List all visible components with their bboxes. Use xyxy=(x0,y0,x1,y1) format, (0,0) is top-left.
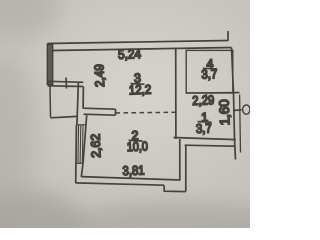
wall top inner line xyxy=(53,48,232,51)
left edge band xyxy=(0,55,37,205)
wall window-side right line below stub junction xyxy=(83,115,87,163)
dark top-left corner xyxy=(0,0,60,40)
niche left vertical xyxy=(49,87,52,118)
partition stub between rooms 2 and 3 xyxy=(84,108,116,109)
wall right-of-room2 verticals xyxy=(179,139,181,181)
svg-text:3,81: 3,81 xyxy=(122,162,145,178)
tick on upper-left wall xyxy=(65,78,68,89)
wall window-side lower double vertical xyxy=(75,125,78,184)
room 4 rectangle xyxy=(186,50,233,93)
dark corner bottom-left xyxy=(0,190,85,240)
bottom strip darkening xyxy=(60,202,290,240)
wall right outer xyxy=(232,48,236,160)
wall window-side upper double vertical xyxy=(77,82,79,125)
dashed zone split between rooms 2 and 3 xyxy=(116,111,176,114)
window symbol xyxy=(77,124,86,126)
wall bottom outer line xyxy=(76,183,164,185)
svg-text:3,7: 3,7 xyxy=(196,120,213,136)
svg-text:1,60: 1,60 xyxy=(217,99,233,126)
wall top outer line xyxy=(48,41,229,44)
tick below room 4 xyxy=(205,94,207,100)
wall right outer second line xyxy=(239,95,242,153)
wall upper-left horizontal double xyxy=(48,81,84,82)
wall left load-bearing (dark fill) xyxy=(47,44,52,84)
svg-text:2,29: 2,29 xyxy=(192,92,215,108)
wall room1 bottom double xyxy=(174,138,236,140)
wall bottom step xyxy=(164,185,186,191)
svg-text:2,49: 2,49 xyxy=(91,64,107,88)
svg-text:12,2: 12,2 xyxy=(129,82,152,98)
svg-text:10,0: 10,0 xyxy=(127,138,149,154)
tick on right wall xyxy=(233,109,242,112)
wall below room 4 (room1 top) extension xyxy=(186,92,239,94)
svg-text:2,62: 2,62 xyxy=(88,134,104,159)
wall bottom inner line xyxy=(81,177,180,180)
wall between room 3 and duct xyxy=(175,48,177,139)
svg-text:5,24: 5,24 xyxy=(118,46,142,62)
svg-text:3,7: 3,7 xyxy=(201,66,218,82)
wall stub top-right xyxy=(227,31,229,41)
door symbol right edge xyxy=(243,105,250,114)
niche bottom horizontal xyxy=(51,116,78,117)
